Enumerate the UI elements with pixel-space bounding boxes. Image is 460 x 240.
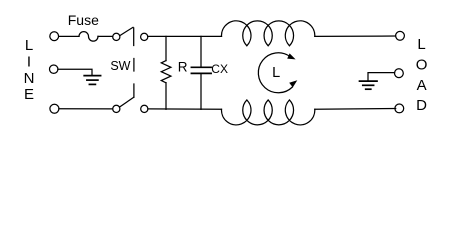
resistor R lead top xyxy=(165,36,167,60)
terminal line-gnd xyxy=(50,65,58,73)
wire ground stub (load side) xyxy=(368,73,395,81)
coupling arrowhead bottom xyxy=(289,80,297,87)
svg-text:N: N xyxy=(24,70,35,87)
svg-text:A: A xyxy=(417,77,427,94)
svg-text:L: L xyxy=(272,65,280,81)
switch SW tie-bar dash 2 xyxy=(133,59,135,72)
terminal load-gnd xyxy=(395,69,404,78)
inductor choke top winding xyxy=(221,21,314,46)
svg-text:SW: SW xyxy=(110,59,130,73)
inductor choke bottom winding xyxy=(221,100,314,125)
node LOAD label xyxy=(416,36,428,114)
switch SW pole B contact 1 xyxy=(113,105,120,112)
switch SW tie-bar dash 1 xyxy=(133,28,135,46)
terminal load-top xyxy=(396,31,405,40)
svg-text:Fuse: Fuse xyxy=(68,12,99,28)
svg-text:R: R xyxy=(178,59,188,74)
resistor R lead bottom xyxy=(165,83,167,110)
wire top-left xyxy=(59,35,79,37)
coupling arrow arc L xyxy=(258,53,292,93)
capacitor CX lead top xyxy=(200,36,202,66)
switch SW pole A contact 2 xyxy=(141,33,148,40)
switch SW pole A blade xyxy=(120,27,133,35)
fuse F1 xyxy=(79,32,98,42)
capacitor CX plate bottom xyxy=(191,72,211,74)
wire fuse to switch xyxy=(98,35,113,37)
coupling arrowhead top xyxy=(287,53,295,59)
switch SW pole B blade xyxy=(120,97,134,107)
terminal load-bottom xyxy=(395,104,404,113)
wire choke to load terminal (bottom) xyxy=(315,108,396,111)
wire switch to choke (bottom) xyxy=(148,108,222,110)
wire ground stub (line side) xyxy=(58,69,92,75)
switch SW pole B contact 2 xyxy=(141,105,148,112)
node LINE label xyxy=(24,37,35,103)
switch SW tie-bar dash 3 xyxy=(133,84,135,97)
wire bottom-left xyxy=(59,108,113,110)
capacitor CX plate top xyxy=(191,66,211,68)
svg-text:CX: CX xyxy=(211,62,228,76)
resistor R xyxy=(161,61,171,83)
capacitor CX lead bottom xyxy=(200,74,202,109)
svg-text:I: I xyxy=(27,53,31,70)
ground load-side xyxy=(360,81,378,89)
wire switch to choke (top) xyxy=(148,35,222,37)
switch SW pole A contact 1 xyxy=(113,33,120,40)
svg-text:D: D xyxy=(416,97,427,114)
terminal line-bottom xyxy=(50,104,59,113)
svg-text:L: L xyxy=(417,36,425,53)
svg-text:O: O xyxy=(416,56,428,73)
wire choke to load terminal (top) xyxy=(315,35,396,37)
svg-text:E: E xyxy=(24,86,34,103)
terminal line-top xyxy=(50,32,59,41)
svg-text:L: L xyxy=(25,37,33,54)
ground line-side xyxy=(84,76,100,85)
